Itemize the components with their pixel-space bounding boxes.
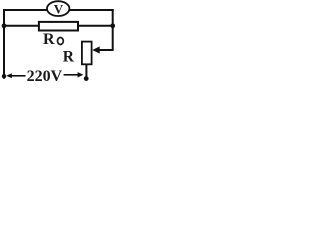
resistor R (rheostat body) (82, 42, 92, 65)
label R0 (43, 31, 63, 48)
wire middle rail (4, 25, 113, 27)
svg-text:R: R (43, 31, 55, 48)
node bottom-left terminal (2, 74, 6, 78)
svg-text:V: V (54, 1, 64, 16)
wire top rail (3, 9, 114, 11)
node junction left-middle (2, 23, 7, 28)
rheostat wiper arrowhead (92, 46, 99, 53)
wire rheostat bottom lead (85, 64, 87, 80)
dimension arrow left (6, 73, 25, 78)
dimension arrow right (64, 72, 84, 77)
svg-text:R: R (63, 49, 75, 66)
voltmeter V (meter) (47, 1, 69, 16)
wire right vertical (112, 9, 114, 51)
node bottom-right terminal (84, 76, 89, 81)
resistor R0 (39, 22, 78, 31)
node junction right-middle (110, 23, 115, 28)
svg-text:220V: 220V (27, 68, 63, 84)
wire slider arm (98, 49, 113, 51)
wire left vertical (3, 9, 5, 79)
